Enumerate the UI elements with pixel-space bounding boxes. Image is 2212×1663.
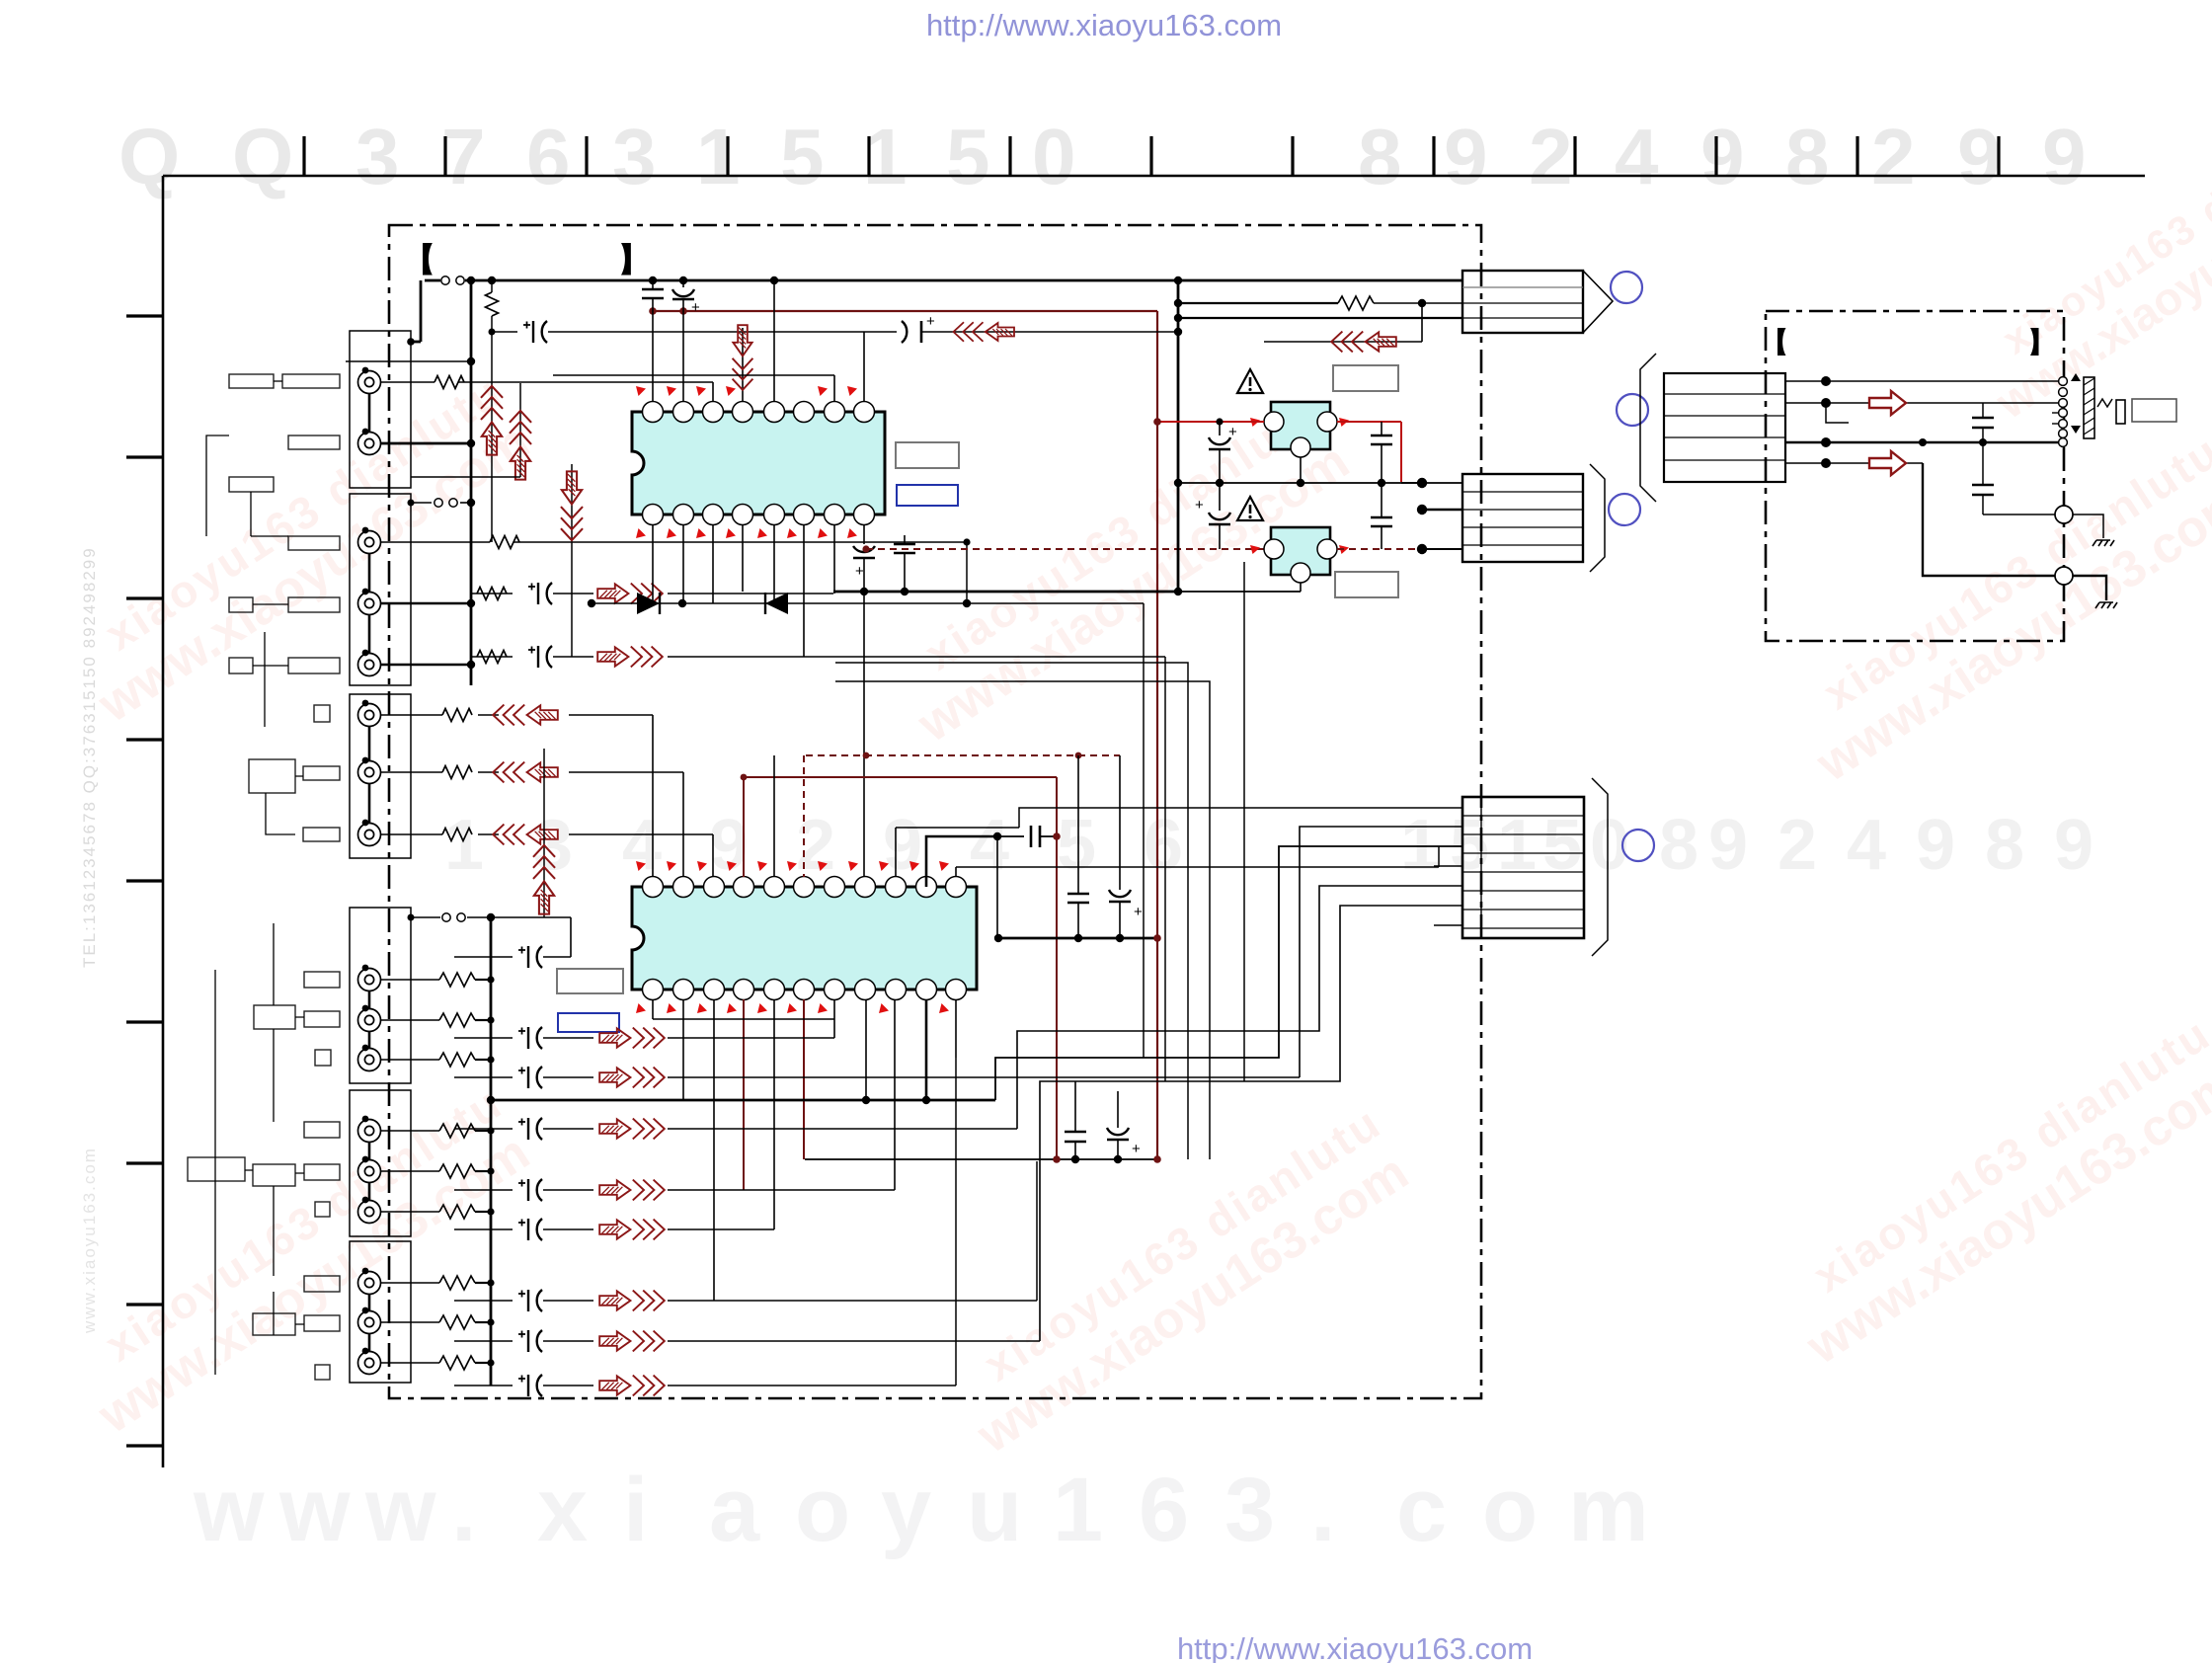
capacitor C40: [1972, 417, 1994, 420]
label box L6: [229, 597, 253, 612]
capacitor C34 (polarized): [1109, 890, 1131, 897]
IC U2 bottom pin 18: [764, 980, 785, 1000]
svg-text:5: 5: [780, 113, 825, 200]
wire HP row2: [1785, 402, 2059, 404]
IC U2 top pin 10: [916, 877, 937, 898]
svg-text:o: o: [1482, 1460, 1538, 1560]
svg-text:1: 1: [444, 806, 484, 885]
resistor R9: [439, 973, 475, 987]
IC U2 bottom pin 13: [916, 980, 937, 1000]
IC U2 bottom pin 16: [825, 980, 845, 1000]
label box U2 ref (blue): [558, 1013, 619, 1032]
wire jack J1 row: [381, 381, 434, 383]
label box U2 part number: [557, 969, 623, 993]
svg-text:6: 6: [1139, 1460, 1189, 1560]
svg-text:0: 0: [1032, 113, 1076, 200]
label box Q2: [1335, 572, 1398, 597]
wire jack row y1227: [381, 1211, 439, 1213]
label box L22: [315, 1202, 330, 1217]
svg-text:6: 6: [526, 113, 571, 200]
wire U1 pin12 down: [773, 524, 775, 603]
wire jack J7 row: [381, 771, 442, 773]
svg-text:+: +: [1195, 497, 1204, 514]
signal flow arrow B1: [599, 1028, 665, 1049]
capacitor C24 (polarized): [518, 1219, 542, 1240]
RCA jack J5: [358, 654, 381, 676]
label box L23: [304, 1276, 340, 1292]
label box L5: [288, 536, 340, 550]
label box HP: [2132, 399, 2176, 422]
connector CN10 bracket: [1640, 354, 1656, 502]
svg-text:7: 7: [441, 113, 486, 200]
resistor R15: [439, 1276, 475, 1290]
wire U2 pin risers below: [652, 999, 654, 1019]
connector group box CN6: [350, 1241, 411, 1383]
resistor R2: [490, 536, 519, 549]
watermark: rotated pink marks: [58, 365, 543, 734]
capacitor C5 (polarized): [492, 331, 517, 333]
IC U1 top pin 7: [825, 402, 845, 423]
watermark: large bottom gray text: [193, 1460, 1649, 1560]
label box L7: [288, 597, 340, 612]
wire TP1 to ground: [2073, 515, 2103, 538]
IC U1 top pin 6: [794, 402, 815, 423]
wire U1 pin15 down: [682, 524, 684, 603]
resistor R13: [439, 1164, 475, 1178]
resistor R4: [477, 651, 507, 664]
label box L2: [282, 374, 340, 388]
capacitor C33: [1067, 893, 1089, 896]
svg-text:5: 5: [1450, 806, 1489, 885]
svg-text:5: 5: [1542, 806, 1582, 885]
capacitor C9 (polarized): [1219, 422, 1221, 436]
wire U1 pin16 down: [652, 524, 654, 603]
IC U1 bottom pin 9: [854, 505, 875, 525]
wire riser row1245: [773, 999, 775, 1229]
RCA jack J12: [358, 1120, 381, 1143]
wire riser row1205: [894, 999, 896, 1190]
connector CN9 cells: [1480, 797, 1482, 938]
reference circle CN10 (blue): [1617, 394, 1648, 426]
wire coupling row y1205: [454, 1189, 513, 1191]
capacitor C30: [997, 835, 1024, 837]
wire U1 pin2: [682, 311, 684, 402]
main board dash-dot border: [389, 225, 1481, 1398]
wire input bus: [470, 280, 473, 685]
wire jack J3 row: [381, 541, 490, 543]
wire maroon vertical rail: [1156, 311, 1158, 1159]
wire mid ground row: [1178, 482, 1422, 484]
IC U2 bottom pin 12: [946, 980, 967, 1000]
connector group box CN1: [350, 331, 411, 488]
transistor Q2 body: [1271, 527, 1330, 575]
wire riser U2 pin11: [955, 867, 957, 877]
svg-text:http://www.xiaoyu163.com: http://www.xiaoyu163.com: [926, 8, 1282, 42]
connector CN8 body: [1462, 474, 1583, 562]
IC U2 top pin 3: [704, 877, 725, 898]
wire feeder with down arrow: [571, 464, 573, 657]
svg-text:9: 9: [2054, 806, 2093, 885]
RCA jack J9: [358, 969, 381, 991]
top ruler line: [163, 175, 2145, 178]
IC U1 bottom pin 10: [825, 505, 845, 525]
wire Q1 base down: [1300, 457, 1302, 483]
IC U1 top pin 3: [703, 402, 724, 423]
resistor R12: [439, 1124, 475, 1138]
wire coupling row y1091: [454, 1076, 513, 1078]
signal flow arrow B3: [599, 1119, 665, 1140]
signal flow arrow B7: [599, 1331, 665, 1352]
svg-text:9: 9: [1700, 113, 1745, 200]
IC U2 top pin 8: [855, 877, 876, 898]
diode D1: [637, 593, 660, 614]
label box L20: [253, 1164, 295, 1186]
label box L14: [304, 972, 340, 988]
wire red emitter line Q1: [1157, 421, 1264, 423]
svg-text:3: 3: [1224, 1460, 1275, 1560]
svg-text:5: 5: [946, 113, 990, 200]
IC U2 body: [632, 887, 977, 990]
label box L8: [229, 658, 253, 673]
wire bypass rail: [996, 836, 998, 938]
svg-text:9: 9: [1444, 113, 1488, 200]
wire riser to lower bundle: [1243, 562, 1245, 1081]
svg-text:+: +: [1132, 1141, 1141, 1157]
capacitor C2 (polarized): [682, 280, 684, 287]
headphone jack J18: [2059, 377, 2068, 447]
IC U2 bottom pin 15: [855, 980, 876, 1000]
signal flow arrow H1: [1869, 391, 1906, 415]
svg-text:+: +: [1228, 424, 1237, 440]
svg-text:+: +: [926, 313, 935, 330]
IC U1 body: [632, 412, 885, 515]
RCA jack J15: [358, 1272, 381, 1295]
left ruler ticks: [126, 316, 163, 1446]
connector CN9 bracket: [1592, 778, 1608, 956]
svg-text:8: 8: [1358, 113, 1402, 200]
label box L16: [304, 1011, 340, 1027]
ground G1: [2093, 540, 2114, 546]
wire route row1143: [1017, 886, 1462, 1129]
label box U1 part number: [896, 442, 959, 468]
IC U1 top pin 2: [673, 402, 694, 423]
switch S1: [441, 277, 464, 284]
resistor R16: [439, 1315, 475, 1329]
wire to bus: [346, 360, 471, 362]
IC U2 bottom pin 19: [734, 980, 754, 1000]
connector CN7 point: [1583, 271, 1613, 333]
capacitor C21 (polarized): [518, 1067, 542, 1088]
wire coupling row y1245: [454, 1228, 513, 1230]
label box L19: [188, 1157, 245, 1181]
IC U1 bottom pin 12: [764, 505, 785, 525]
wire riser row1091 to CN9: [1300, 827, 1462, 1077]
resistor R5: [442, 709, 472, 722]
resistor R6: [442, 766, 472, 779]
resistor R1: [434, 376, 464, 389]
wire jack J4 row: [381, 602, 471, 604]
wire HP row1: [1785, 380, 2059, 382]
svg-text:5: 5: [1057, 806, 1096, 885]
label box L3: [288, 436, 340, 449]
capacitor C27 (polarized): [518, 1375, 542, 1396]
signal flow arrow B2: [599, 1068, 665, 1088]
wire row2 branch: [1826, 403, 1849, 423]
capacitor C32 (polarized): [1107, 1128, 1129, 1135]
label box L24: [253, 1313, 295, 1335]
wire main rail: [1177, 280, 1180, 594]
IC U2 bottom pin 20: [704, 980, 725, 1000]
wire coupling row y1358: [454, 1340, 513, 1342]
signal flow arrow B8: [599, 1376, 665, 1396]
wire feeder with up arrow: [491, 316, 493, 542]
signal flow arrow A2: [597, 647, 663, 668]
wire bundle A4: [835, 681, 1210, 1159]
IC U1 bottom pin 15: [673, 505, 694, 525]
IC U2 top pin 1: [643, 877, 664, 898]
svg-text:4: 4: [1615, 113, 1659, 200]
wire U1 pin8 + coupling cap: [863, 332, 865, 402]
signal flow arrow A4: [493, 762, 558, 783]
connector group box CN2: [350, 494, 411, 685]
connector CN7 body: [1462, 271, 1583, 333]
capacitor C3 (polarized): [528, 583, 552, 604]
svg-text:4: 4: [622, 806, 662, 885]
RCA jack J14: [358, 1201, 381, 1224]
wire jack row y1380: [381, 1362, 439, 1364]
connector group box CN3: [350, 694, 411, 858]
wire rail row3: [1178, 317, 1462, 319]
svg-text:+: +: [855, 563, 864, 580]
wire arrow feed row: [1264, 341, 1422, 343]
label connection lines: [206, 381, 540, 1375]
wire jack J2 row: [381, 442, 471, 445]
capacitor C20 (polarized): [518, 1027, 542, 1049]
svg-text:9: 9: [883, 806, 922, 885]
svg-text:+: +: [691, 299, 700, 316]
label box L26: [315, 1365, 330, 1380]
IC U2 bottom pin 21: [673, 980, 694, 1000]
wire jack row y1073: [381, 1059, 439, 1061]
RCA jack J6: [358, 704, 381, 727]
svg-text:1: 1: [696, 113, 741, 200]
svg-text:.: .: [1310, 1460, 1336, 1560]
wire U1 pin7: [833, 375, 835, 402]
main board title bracket right: [621, 243, 631, 275]
ground G2: [2095, 602, 2117, 608]
connector CN8 bracket: [1590, 464, 1605, 572]
signal flow arrow A11: [1331, 332, 1396, 353]
wire Q2 base down: [1300, 583, 1302, 592]
signal flow arrow A8: [561, 471, 583, 540]
IC U1 bottom pin 13: [733, 505, 753, 525]
capacitor C25 (polarized): [518, 1290, 542, 1311]
headphone board dash-dot border: [1766, 311, 2064, 641]
signal flow arrow B6: [599, 1291, 665, 1311]
svg-text:i: i: [623, 1460, 649, 1560]
RCA jack J13: [358, 1160, 381, 1183]
svg-text:u: u: [967, 1460, 1022, 1560]
svg-text:4: 4: [970, 806, 1009, 885]
svg-text:3: 3: [612, 113, 657, 200]
signal flow arrow A3: [493, 705, 558, 726]
wire diode row: [592, 602, 1144, 604]
capacitor C6 (polarized, reverse): [902, 321, 907, 343]
RCA jack J4: [358, 593, 381, 615]
wire riser row1051 to U2 pin: [833, 999, 835, 1038]
svg-text:w: w: [364, 1460, 436, 1560]
test point TP1: [2055, 506, 2073, 523]
IC U2 bottom pin 14: [886, 980, 907, 1000]
wire U1 pin5: [773, 280, 775, 402]
warning triangle W2: [1237, 497, 1263, 520]
capacitor C12: [1371, 516, 1392, 519]
reference circle CN7 (blue): [1611, 272, 1642, 303]
wire maroon dashed net to U2 pin6: [806, 754, 1120, 756]
wire maroon dashed feed: [866, 548, 1271, 550]
wire route row1358: [1040, 906, 1462, 1341]
connector CN9 body: [1462, 797, 1584, 938]
label box L10: [314, 705, 330, 722]
wire bundle A3: [835, 663, 1188, 1159]
capacitor C31: [1065, 1131, 1086, 1134]
svg-text:9: 9: [2042, 113, 2087, 200]
svg-text:9: 9: [1957, 113, 2002, 200]
IC U1 top pin 5: [764, 402, 785, 423]
wire coupling row y1143: [454, 1128, 513, 1130]
wire coupling row y969: [491, 916, 571, 918]
resistor R10: [439, 1013, 475, 1027]
signal flow arrow H2: [1869, 451, 1906, 475]
wire jack row y992: [381, 979, 439, 981]
wire maroon net to U2 pin4: [743, 777, 745, 877]
svg-text:2: 2: [1529, 113, 1573, 200]
wire jack J6 row: [381, 714, 442, 716]
wire U2 pin5 riser: [773, 755, 775, 877]
label box U1 ref (blue): [897, 485, 958, 506]
RCA jack J17: [358, 1352, 381, 1375]
RCA jack J2: [358, 433, 381, 455]
IC U2 top pin 11: [946, 877, 967, 898]
IC U2 top pin 6: [794, 877, 815, 898]
svg-text:.: .: [451, 1460, 477, 1560]
capacitor C4 (polarized): [528, 646, 552, 668]
diode D2: [765, 593, 788, 614]
wire maroon supply rail: [653, 310, 1157, 312]
capacitor C19 (polarized): [518, 946, 542, 968]
resistor R14: [439, 1205, 475, 1219]
IC U2 top pin 9: [886, 877, 907, 898]
svg-text:http://www.xiaoyu163.com: http://www.xiaoyu163.com: [1177, 1631, 1533, 1663]
signal flow arrow B5: [599, 1220, 665, 1240]
svg-text:9: 9: [1916, 806, 1955, 885]
wire riser row1317: [713, 999, 715, 1301]
wire route row1403: [955, 1058, 957, 1386]
label box L9: [288, 658, 340, 673]
wire bundle A2: [1164, 657, 1166, 1081]
IC U1 bottom pin 16: [643, 505, 664, 525]
resistor R8: [1338, 296, 1374, 310]
wire U2 pin10 thick riser: [926, 836, 996, 887]
capacitor C1: [652, 280, 654, 289]
capacitor C7 (polarized): [853, 546, 875, 552]
headphone jack hatched bar: [2084, 377, 2094, 438]
RCA jack J11: [358, 1049, 381, 1071]
svg-text:Q: Q: [232, 113, 293, 200]
svg-text:w: w: [193, 1460, 265, 1560]
signal flow arrow A1: [597, 584, 663, 604]
wire jack row y1339: [381, 1321, 439, 1323]
capacitor C26 (polarized): [518, 1330, 542, 1352]
signal flow arrow A10: [954, 322, 1015, 342]
capacitor C41: [1972, 484, 1994, 487]
IC U1 bottom pin 11: [794, 505, 815, 525]
svg-text:8: 8: [1985, 806, 2024, 885]
wire lower input bus: [490, 917, 493, 1386]
svg-text:2: 2: [1871, 113, 1916, 200]
svg-text:o: o: [795, 1460, 850, 1560]
wire coupling row y1051: [454, 1037, 513, 1039]
wire switch drop to CN1: [420, 280, 423, 342]
wire U1 pin11 down: [803, 524, 805, 657]
signal flow arrow B4: [599, 1180, 665, 1201]
svg-text:1: 1: [1497, 806, 1537, 885]
wire HP row3 thick: [1785, 441, 2059, 444]
RCA jack J16: [358, 1311, 381, 1334]
IC U1 top pin 4: [733, 402, 753, 423]
wire jack row y1299: [381, 1282, 439, 1284]
svg-text:2: 2: [1777, 806, 1817, 885]
switch S3: [411, 916, 440, 918]
connector group box CN5: [350, 1090, 411, 1236]
IC U2 bottom pin 22: [643, 980, 664, 1000]
capacitor C11 (polarized): [1219, 483, 1221, 511]
signal flow arrow A9: [533, 845, 555, 914]
svg-text:8: 8: [1785, 113, 1830, 200]
headphone board title bracket right: [2030, 328, 2039, 356]
RCA jack J10: [358, 1009, 381, 1032]
svg-text:1: 1: [1053, 1460, 1103, 1560]
svg-text:1: 1: [1400, 806, 1440, 885]
label box Q1: [1333, 365, 1398, 391]
signal flow arrow A5: [493, 825, 558, 845]
connector CN10 body: [1664, 373, 1785, 482]
wire jack J8 row: [381, 833, 442, 835]
watermark: faint mid-page digits row: [444, 806, 2093, 885]
IC U1 top pin 1: [643, 402, 664, 423]
jack ground chain wires: [368, 394, 371, 1351]
wire long riser pin9: [863, 592, 865, 887]
label box L12: [303, 766, 340, 780]
connector group box CN4: [350, 908, 411, 1083]
watermark: faint header digits row: [118, 113, 2087, 200]
left ruler line: [162, 176, 165, 1467]
warning triangle W1: [1237, 369, 1263, 393]
resistor R11: [439, 1053, 475, 1067]
wire U1 pin13 down: [742, 524, 744, 592]
svg-text:www.xiaoyu163.com: www.xiaoyu163.com: [80, 1147, 99, 1334]
label box L18: [304, 1122, 340, 1138]
top ruler ticks: [304, 136, 1999, 176]
RCA jack J3: [358, 531, 381, 554]
svg-text:m: m: [1568, 1460, 1649, 1560]
wire HP row4: [1785, 462, 1923, 464]
svg-text:w: w: [278, 1460, 351, 1560]
test point TP2: [2055, 567, 2073, 585]
wire jack J5 row: [381, 664, 471, 666]
wire jack row y1186: [381, 1170, 439, 1172]
label box L1: [229, 374, 274, 388]
